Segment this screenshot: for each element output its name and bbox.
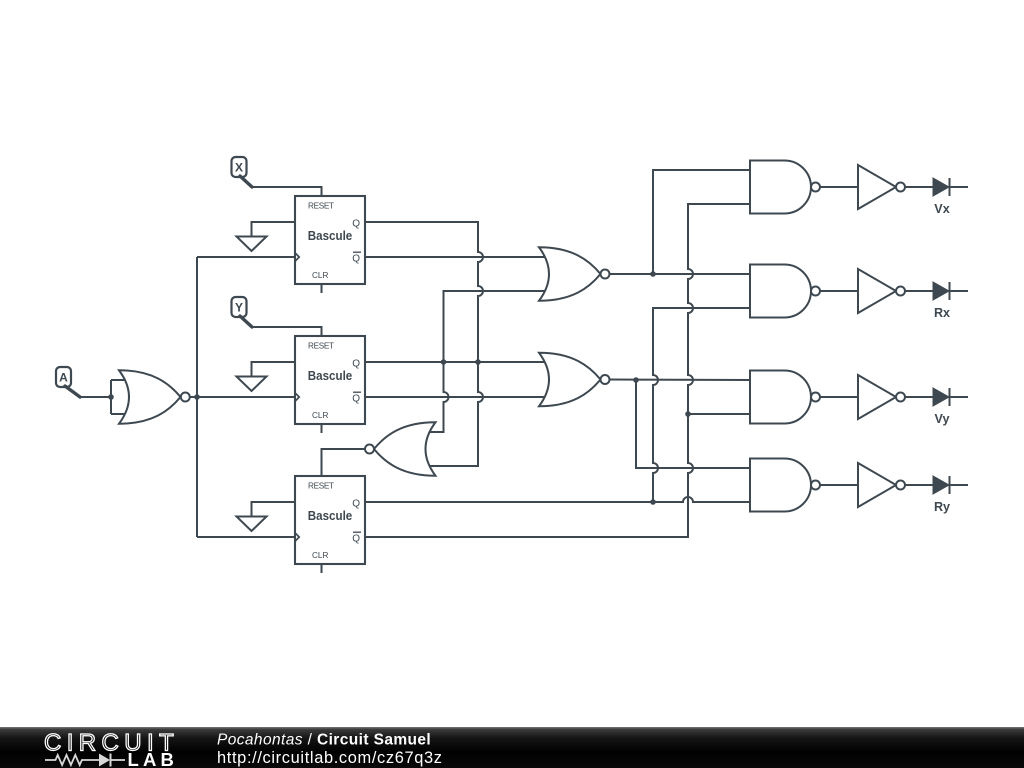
svg-text:Rx: Rx <box>934 306 950 320</box>
wire x653 up to U8 top input <box>653 170 752 274</box>
svg-text:RESET: RESET <box>308 202 334 211</box>
junction dot x443.5/Q2 row <box>441 359 447 365</box>
inverter U15 <box>858 463 905 507</box>
CLR stub U3 <box>321 564 323 573</box>
wire U3 Qbar up bus x688 to U8 bottom input (hops) <box>365 204 752 537</box>
wire U5 output to U9 top input <box>610 273 753 275</box>
svg-text:Q: Q <box>352 254 360 265</box>
wire U1 Qbar to U5 top input <box>365 256 547 258</box>
input flag Y <box>232 297 253 327</box>
svg-text:http://circuitlab.com/cz67q3z: http://circuitlab.com/cz67q3z <box>217 749 443 767</box>
svg-text:Vx: Vx <box>934 202 949 216</box>
footer bar <box>0 727 1024 768</box>
wire U10 output to inverter <box>820 396 858 398</box>
wire U11 output to inverter <box>820 484 858 486</box>
wire U3 Q to U11 bottom input (hop over x688) <box>365 497 752 502</box>
input flag A <box>56 367 80 397</box>
junction dot clock bus <box>194 394 200 400</box>
inverter U12 <box>858 165 905 209</box>
wire U1 D pin to ground <box>252 222 296 237</box>
svg-text:RESET: RESET <box>308 342 334 351</box>
flip-flop U2 "Bascule" <box>295 336 365 424</box>
svg-text:Ry: Ry <box>934 500 950 514</box>
wire x653 lower: U9 bottom input down to Q3 row (hops) <box>653 308 752 502</box>
junction dot U6 out/x636 <box>633 377 639 383</box>
NOR gate U5 <box>539 247 610 301</box>
wire clock bus to U3 clock <box>197 536 295 538</box>
svg-text:CLR: CLR <box>312 411 328 420</box>
ground symbol G1 <box>237 237 267 252</box>
svg-text:Y: Y <box>235 301 243 315</box>
wire inverter to diode DRx <box>905 290 933 292</box>
inverter U14 <box>858 375 905 419</box>
svg-text:CLR: CLR <box>312 551 328 560</box>
svg-text:RESET: RESET <box>308 482 334 491</box>
wire diode DRy output <box>950 484 969 486</box>
wire U4 output to U2 clock <box>190 396 295 398</box>
svg-text:Q: Q <box>352 359 360 370</box>
wire A flag to NOR input node <box>80 396 111 398</box>
diode DRx <box>933 282 950 300</box>
junction dot node A <box>108 394 114 400</box>
wire U9 output to inverter <box>820 290 858 292</box>
svg-text:LAB: LAB <box>128 749 179 768</box>
svg-text:Q: Q <box>352 534 360 545</box>
wire U2 Qbar to U6 bottom input <box>365 396 547 398</box>
junction dot U5 out/x653 <box>650 271 656 277</box>
wire x636 down to U11 top input <box>636 380 752 468</box>
flip-flop U1 "Bascule" <box>295 196 365 284</box>
wire clock bus to U1 clock <box>197 256 295 258</box>
svg-text:Pocahontas / Circuit Samuel: Pocahontas / Circuit Samuel <box>217 732 431 749</box>
NOR gate U6 <box>539 353 610 407</box>
wire x688 junction to U10 bottom input <box>688 413 752 415</box>
wire U2 Q to U6 top input <box>365 361 547 363</box>
wire U3 D pin to ground <box>252 502 296 517</box>
wire U7 output to U3 RESET <box>322 449 366 477</box>
NOR gate U4 input-tie bar <box>111 380 126 414</box>
wire U6 output to U10 top input <box>610 379 753 382</box>
wire diode DRx output <box>950 290 969 292</box>
wire diode DVy output <box>950 396 969 398</box>
input flag X <box>232 157 253 187</box>
wire clock bus vertical <box>196 257 198 537</box>
NAND gate U10 <box>750 371 820 424</box>
wire U2 D pin to ground <box>252 362 296 377</box>
svg-text:Vy: Vy <box>935 412 950 426</box>
inverter U13 <box>858 269 905 313</box>
svg-text:Q: Q <box>352 499 360 510</box>
wire Y flag to U2 RESET <box>252 327 322 337</box>
wire inverter to diode DRy <box>905 484 933 486</box>
NOR gate U7 (mirrored) <box>365 422 436 476</box>
flip-flop U3 "Bascule" <box>295 476 365 564</box>
svg-text:Q: Q <box>352 394 360 405</box>
svg-text:Bascule: Bascule <box>308 229 353 243</box>
NOR gate U4 (clock driver) <box>119 370 190 424</box>
NAND gate U8 <box>750 161 820 214</box>
diode DRy <box>933 476 950 494</box>
junction dot x688/NAND3 bottom row <box>685 411 691 417</box>
svg-text:X: X <box>235 161 243 175</box>
NAND gate U11 <box>750 459 820 512</box>
svg-text:Q: Q <box>352 219 360 230</box>
junction dot x653/Q3 row <box>650 499 656 505</box>
clock edge marker U3 <box>295 533 299 542</box>
svg-text:Bascule: Bascule <box>308 509 353 523</box>
svg-text:Bascule: Bascule <box>308 369 353 383</box>
diode DVy <box>933 388 950 406</box>
ground symbol G3 <box>237 517 267 532</box>
wire U1 Q to U7 lower input (vertical bus x478, hops) <box>365 222 483 466</box>
CLR stub U1 <box>321 284 323 293</box>
logo resistor-diode glyph <box>45 754 125 767</box>
svg-text:A: A <box>59 371 68 385</box>
junction dot x478/Q2 row <box>475 359 481 365</box>
wire U8 output to inverter <box>820 186 858 188</box>
wire inverter to diode DVx <box>905 186 933 188</box>
wire inverter to diode DVy <box>905 396 933 398</box>
NAND gate U9 <box>750 265 820 318</box>
svg-text:CLR: CLR <box>312 271 328 280</box>
ground symbol G2 <box>237 377 267 392</box>
clock edge marker U1 <box>295 253 299 262</box>
CLR stub U2 <box>321 424 323 433</box>
clock edge marker U2 <box>295 393 299 402</box>
diode DVx <box>933 178 950 196</box>
wire bus x443.5: U5 bottom input to U7 top input (hop at 397) <box>426 291 547 432</box>
wire diode DVx output <box>950 186 969 188</box>
wire X flag to U1 RESET <box>252 187 322 197</box>
